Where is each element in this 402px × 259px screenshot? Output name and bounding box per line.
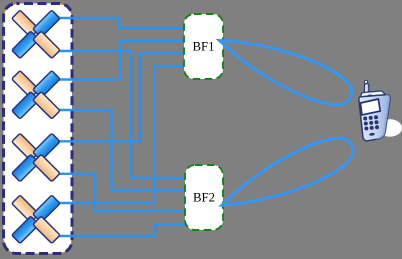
beamformer BF1 box: [184, 14, 223, 79]
antenna element A4 (crossed dipole): [12, 195, 60, 243]
phone keypad: [363, 115, 379, 136]
mobile phone: [359, 80, 390, 141]
svg-text:BF2: BF2: [193, 191, 215, 205]
wire A2-blue to BF1: [57, 41, 184, 80]
enclosure dashed border: [4, 4, 73, 254]
phone right edge highlight: [375, 95, 391, 140]
antenna element A1 (crossed dipole): [12, 10, 60, 58]
beam lobe from BF2: [215, 130, 360, 222]
mobile phone shadow: [378, 119, 402, 136]
antenna element A3 (crossed dipole): [12, 133, 60, 181]
wire A2-orange to BF2: [57, 110, 186, 190]
beamformer BF2 box: [185, 165, 223, 230]
wire A1-blue to BF1: [57, 18, 184, 28]
phone body: [359, 95, 390, 141]
wire A3-blue to BF1: [57, 53, 184, 141]
phone antenna stub: [364, 80, 367, 83]
wire A4-blue to BF1: [57, 66, 184, 203]
phone screen: [360, 99, 380, 115]
beam lobe from BF1: [212, 24, 357, 113]
wire A3-orange to BF2: [57, 174, 186, 211]
wire A4-orange to BF2: [57, 225, 186, 237]
wire A1-orange to BF2: [57, 51, 186, 178]
svg-text:BF1: BF1: [192, 40, 214, 54]
phone speaker dot: [368, 94, 373, 96]
antenna element A2 (crossed dipole): [12, 71, 60, 119]
phone top face: [360, 91, 385, 97]
antenna array enclosure (white panel): [4, 4, 73, 254]
enclosure corner accent arcs (orange): [4, 4, 17, 17]
